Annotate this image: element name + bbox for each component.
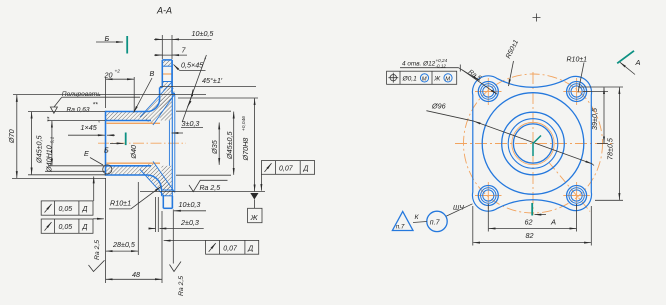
svg-text:48: 48 bbox=[132, 270, 140, 279]
svg-text:3±0,3: 3±0,3 bbox=[182, 119, 200, 128]
svg-text:Ø45±0,5: Ø45±0,5 bbox=[34, 134, 43, 164]
svg-text:62: 62 bbox=[525, 218, 533, 227]
svg-text:-0,1: -0,1 bbox=[50, 136, 56, 145]
svg-text:Ø0,1: Ø0,1 bbox=[402, 75, 418, 82]
svg-text:R10±1: R10±1 bbox=[567, 57, 588, 64]
svg-text:п.7: п.7 bbox=[430, 220, 441, 227]
svg-text:Ra 0,63: Ra 0,63 bbox=[67, 106, 90, 113]
svg-text:78±0,5: 78±0,5 bbox=[606, 137, 615, 160]
svg-text:10±0,3: 10±0,3 bbox=[179, 200, 201, 209]
svg-text:+2: +2 bbox=[115, 69, 121, 75]
svg-text:Ж: Ж bbox=[250, 213, 259, 222]
svg-text:А: А bbox=[635, 58, 641, 67]
svg-text:R10±1: R10±1 bbox=[110, 199, 131, 208]
svg-text:М: М bbox=[422, 77, 427, 83]
svg-text:Д: Д bbox=[303, 166, 309, 173]
svg-text:°: ° bbox=[98, 121, 100, 127]
svg-text:28±0,5: 28±0,5 bbox=[112, 240, 136, 249]
svg-text:Б: Б bbox=[104, 145, 109, 154]
svg-text:Д: Д bbox=[82, 206, 88, 213]
svg-text:В: В bbox=[150, 69, 155, 78]
svg-text:Ra 2,5: Ra 2,5 bbox=[94, 240, 101, 260]
svg-text:Ø40: Ø40 bbox=[129, 145, 138, 160]
svg-text:Ra 2,5: Ra 2,5 bbox=[200, 185, 221, 192]
svg-text:0,5×45: 0,5×45 bbox=[181, 61, 204, 70]
svg-text:Ж: Ж bbox=[433, 76, 441, 83]
svg-text:39±0,5: 39±0,5 bbox=[590, 107, 599, 130]
svg-text:+0,24: +0,24 bbox=[436, 58, 448, 63]
svg-text:**: ** bbox=[93, 102, 99, 109]
svg-text:Ø70: Ø70 bbox=[7, 129, 16, 144]
svg-text:Д: Д bbox=[82, 224, 88, 231]
svg-text:М: М bbox=[445, 77, 450, 83]
svg-text:20: 20 bbox=[104, 71, 113, 80]
svg-text:А-А: А-А bbox=[156, 6, 172, 16]
svg-text:А: А bbox=[550, 217, 556, 226]
svg-text:Ø70Н8: Ø70Н8 bbox=[241, 138, 250, 162]
svg-text:1×45: 1×45 bbox=[81, 123, 98, 132]
svg-text:0,07: 0,07 bbox=[279, 166, 294, 173]
svg-text:+0,046: +0,046 bbox=[241, 116, 247, 131]
svg-text:10±0,5: 10±0,5 bbox=[192, 29, 215, 38]
svg-text:0,07: 0,07 bbox=[223, 245, 238, 252]
svg-text:п.7: п.7 bbox=[396, 224, 405, 231]
svg-text:82: 82 bbox=[526, 231, 534, 240]
svg-text:2±0,3: 2±0,3 bbox=[180, 218, 199, 227]
svg-text:4 отв. Ø12: 4 отв. Ø12 bbox=[402, 60, 436, 67]
svg-text:0,05: 0,05 bbox=[59, 224, 73, 231]
svg-text:Ø35: Ø35 bbox=[210, 139, 219, 155]
svg-text:**: ** bbox=[47, 116, 54, 122]
svg-text:0,05: 0,05 bbox=[59, 206, 73, 213]
svg-text:Д: Д bbox=[247, 245, 253, 252]
svg-text:Е: Е bbox=[84, 149, 89, 158]
svg-text:Ø45±0,5: Ø45±0,5 bbox=[225, 130, 234, 160]
svg-text:Ra 2,5: Ra 2,5 bbox=[178, 276, 185, 296]
svg-text:45°±1′: 45°±1′ bbox=[202, 76, 223, 85]
svg-text:Ø96: Ø96 bbox=[431, 102, 446, 111]
